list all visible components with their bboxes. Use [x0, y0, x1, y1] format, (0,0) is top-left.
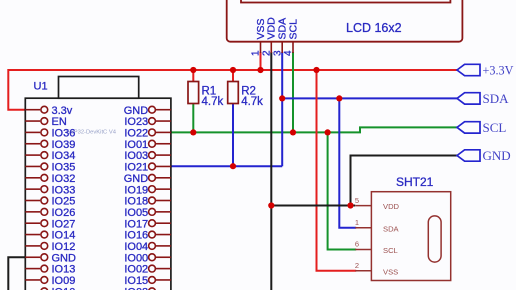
board name label ESP32-DevKitC V4 [66, 130, 117, 136]
reference label U1 [34, 81, 48, 93]
junction SCL bus/SHT branch [325, 129, 331, 135]
net flag GND [457, 148, 511, 163]
junction rail/SHT VSS branch [313, 67, 319, 73]
pin IO18 (U1 right row 9) [124, 196, 171, 208]
svg-text:IO05: IO05 [124, 207, 148, 219]
svg-text:6: 6 [355, 240, 359, 249]
pin 3.3v (U1 left row 1) [25, 105, 72, 117]
pin IO32 (U1 left row 7) [25, 173, 75, 185]
svg-text:GND: GND [483, 148, 511, 163]
svg-text:3.3v: 3.3v [52, 105, 73, 117]
pin IO22 (U1 right row 3) [124, 128, 171, 140]
pin GND (U1 left row 14) [25, 252, 76, 264]
svg-text:IO34: IO34 [52, 150, 76, 162]
svg-text:IO18: IO18 [124, 196, 148, 208]
LCD pin 3 SDA stub [281, 42, 283, 53]
pin IO12 (U1 left row 13) [25, 241, 75, 253]
svg-text:IO33: IO33 [52, 184, 76, 196]
wire: blue SDA branch down to SHT21 SDA pin [339, 98, 355, 227]
wire: black from VDD junction up and right to GND flag [351, 156, 458, 206]
pin IO26 (U1 left row 10) [25, 207, 75, 219]
net flag SDA [457, 91, 509, 106]
pin IO25 (U1 left row 9) [25, 196, 75, 208]
LCD pin number 1 (rotated) [251, 50, 262, 56]
pin GND (U1 right row 1) [124, 105, 171, 117]
pin IO04 (U1 right row 13) [124, 241, 171, 253]
LCD pin number 4 (rotated) [283, 50, 294, 56]
pin IO17 (U1 right row 11) [124, 218, 171, 230]
label SHT21 [396, 175, 434, 189]
pin IO36 (U1 left row 3) [25, 128, 75, 140]
LCD pin number 2 (rotated) [262, 50, 273, 56]
LCD pin 2 VDD stub [270, 42, 272, 53]
pin IO23 (U1 right row 2) [124, 116, 171, 128]
svg-text:IO39: IO39 [52, 139, 76, 151]
label R2 4.7k [241, 86, 263, 109]
svg-text:IO12: IO12 [52, 241, 76, 253]
svg-text:4.7k: 4.7k [241, 96, 263, 108]
junction VDD line/LCD VDD [268, 202, 274, 208]
junction SCL bus/R1 [190, 129, 196, 135]
SHT21 pin name VSS [383, 267, 398, 276]
SHT21 pin name SDA [383, 224, 400, 233]
SHT21 inner pill marker [428, 216, 441, 262]
svg-text:EN: EN [52, 116, 67, 128]
pin IO08 (U1 right row 17) [124, 286, 171, 290]
SHT21 pin 6 SCL stub [355, 249, 371, 251]
svg-text:SHT21: SHT21 [396, 175, 434, 189]
svg-text:5: 5 [355, 196, 359, 205]
pin EN (U1 left row 2) [25, 116, 67, 128]
svg-text:IO19: IO19 [124, 184, 148, 196]
svg-text:SCL: SCL [483, 120, 507, 135]
svg-text:4: 4 [283, 50, 294, 56]
svg-text:IO09: IO09 [52, 275, 76, 287]
svg-text:2: 2 [262, 50, 273, 56]
SHT21 pin number 2 [355, 261, 359, 270]
svg-text:IO26: IO26 [52, 207, 76, 219]
LCD pin name SDA (rotated) [277, 18, 289, 40]
pin IO21 (U1 right row 6) [124, 162, 171, 174]
svg-text:IO35: IO35 [52, 162, 76, 174]
svg-text:IO21: IO21 [124, 162, 148, 174]
svg-text:IO32: IO32 [52, 173, 76, 185]
svg-text:SCL: SCL [287, 19, 299, 40]
svg-text:IO23: IO23 [124, 116, 148, 128]
svg-text:IO00: IO00 [124, 252, 148, 264]
pin IO19 (U1 right row 8) [124, 184, 171, 196]
svg-text:IO08: IO08 [124, 286, 148, 290]
svg-text:IO17: IO17 [124, 218, 148, 230]
sensor U2 SHT21 body [371, 192, 450, 281]
svg-text:IO25: IO25 [52, 196, 76, 208]
svg-text:IO14: IO14 [52, 230, 76, 242]
SHT21 pin name SCL [383, 246, 398, 255]
pin IO10 (U1 left row 17) [25, 286, 75, 290]
LCD screen inner rectangle [241, 0, 450, 3]
junction IO21 line/R2 [230, 163, 236, 169]
pin IO35 (U1 left row 6) [25, 162, 75, 174]
LCD pin 4 SCL stub [292, 42, 294, 53]
svg-text:SDA: SDA [383, 224, 400, 233]
svg-text:U1: U1 [34, 81, 48, 93]
pin IO15 (U1 right row 16) [124, 275, 171, 287]
wire: black GND from U1 GND pin left and down to edge [8, 257, 25, 290]
svg-text:2: 2 [355, 261, 359, 270]
SHT21 pin number 5 [355, 196, 359, 205]
junction VDD line/GND flag wire [347, 202, 353, 208]
svg-text:1: 1 [355, 218, 359, 227]
svg-text:4.7k: 4.7k [202, 96, 224, 108]
pin IO14 (U1 left row 12) [25, 230, 75, 242]
svg-text:IO01: IO01 [124, 139, 148, 151]
wire: green SCL bus from U1 IO22 to SCL flag (jog up at x=360) [171, 127, 457, 132]
pin IO16 (U1 right row 12) [124, 230, 171, 242]
LCD pin number 3 (rotated) [272, 50, 283, 56]
pin IO09 (U1 left row 16) [25, 275, 75, 287]
svg-text:IO04: IO04 [124, 241, 148, 253]
pin IO01 (U1 right row 4) [124, 139, 171, 151]
wire: red branch from rail down to SHT21 VSS pin [317, 70, 356, 271]
wire: blue from U1 IO21 right to LCD SDA drop [171, 165, 282, 167]
svg-text:+3.3V: +3.3V [483, 64, 514, 78]
pin IO03 (U1 right row 5) [124, 150, 171, 162]
U1 top notch (USB connector outline) [59, 77, 139, 99]
wire: green SCL branch down to SHT21 SCL pin [328, 132, 356, 249]
wire: red LCD pin1 VSS down to +3.3V rail [260, 52, 262, 70]
resistor R1 [188, 70, 199, 132]
svg-text:IO02: IO02 [124, 264, 148, 276]
LCD pin 1 VSS stub [260, 42, 262, 53]
SHT21 pin 5 VDD stub [355, 205, 371, 207]
junction SDA bus/SHT branch [336, 95, 342, 101]
svg-text:VDD: VDD [383, 202, 400, 211]
LCD pin name VSS (rotated) [255, 18, 267, 39]
svg-text:IO10: IO10 [52, 286, 76, 290]
svg-text:SCL: SCL [383, 246, 398, 255]
svg-text:GND: GND [124, 173, 149, 185]
svg-text:GND: GND [124, 105, 149, 117]
pin IO02 (U1 right row 15) [124, 264, 171, 276]
SHT21 pin number 1 [355, 218, 359, 227]
svg-text:IO27: IO27 [52, 218, 76, 230]
svg-text:IO13: IO13 [52, 264, 76, 276]
svg-text:IO16: IO16 [124, 230, 148, 242]
svg-text:SDA: SDA [483, 91, 510, 106]
SHT21 pin 1 SDA stub [355, 227, 371, 229]
svg-text:IO22: IO22 [124, 128, 148, 140]
pin IO34 (U1 left row 5) [25, 150, 75, 162]
junction rail/LCD VSS [257, 67, 263, 73]
wire: black VDD line from LCD VDD vertical right to SHT21 VDD pin [271, 205, 355, 207]
wire: green LCD pin4 SCL vertical down to SCL bus [292, 52, 294, 132]
SHT21 pin name VDD [383, 202, 400, 211]
pin IO13 (U1 left row 15) [25, 264, 75, 276]
svg-text:IO36: IO36 [52, 128, 76, 140]
junction SCL bus/LCD SCL [290, 129, 296, 135]
label LCD 16x2 [346, 21, 402, 35]
op-amp/module U1 ESP32-DevKitC body [25, 98, 171, 290]
svg-text:IO15: IO15 [124, 275, 148, 287]
wire: black LCD pin2 VDD vertical down to bottom edge [270, 52, 272, 290]
junction rail/R1 [190, 67, 196, 73]
LCD16x2 display symbol outer body [227, 0, 463, 42]
svg-text:LCD 16x2: LCD 16x2 [346, 21, 402, 35]
pin IO27 (U1 left row 11) [25, 218, 75, 230]
pin IO33 (U1 left row 8) [25, 184, 75, 196]
pin IO00 (U1 right row 14) [124, 252, 171, 264]
pin IO39 (U1 left row 4) [25, 139, 75, 151]
wire: blue LCD pin3 SDA vertical down to IO21 line [281, 52, 283, 166]
junction rail/R2 [230, 67, 236, 73]
svg-text:IO03: IO03 [124, 150, 148, 162]
pin GND (U1 right row 7) [124, 173, 171, 185]
power flag +3.3V [457, 64, 514, 78]
pin IO05 (U1 right row 10) [124, 207, 171, 219]
SHT21 pin 2 VSS stub [355, 270, 371, 272]
label R1 4.7k [202, 86, 224, 109]
resistor R2 [228, 70, 239, 166]
junction SDA bus/LCD SDA [279, 95, 285, 101]
svg-text:VSS: VSS [383, 267, 398, 276]
LCD pin name SCL (rotated) [287, 19, 299, 40]
LCD pin name VDD (rotated) [266, 17, 278, 40]
wire: red +3.3V from U1 3.3v pin up-left and across top rail [8, 70, 457, 110]
SHT21 pin number 6 [355, 240, 359, 249]
wire: blue SDA bus from LCD SDA junction right to SDA flag [282, 97, 457, 99]
net flag SCL [457, 120, 506, 135]
svg-text:GND: GND [52, 252, 77, 264]
svg-text:3: 3 [272, 50, 283, 56]
svg-text:1: 1 [251, 50, 262, 56]
